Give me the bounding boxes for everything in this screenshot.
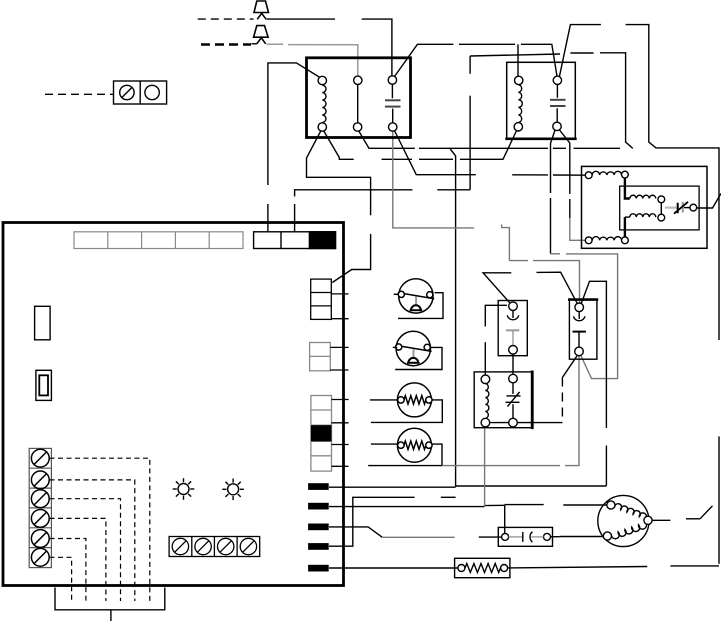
wire gray from spade S2 to relay C1 middle top (267, 44, 358, 76)
wire from spade S1 to relay C1 contact top (267, 19, 392, 76)
wire relay C1 coil-bottom to board connector stack1 (307, 131, 371, 283)
contactor C1 box (307, 58, 411, 138)
pressure switch PS2 (396, 331, 432, 365)
limit switch PS3 box (498, 301, 527, 356)
wire dashed from switch PS4 bottom (562, 356, 577, 423)
transformer T1 primary top winding (585, 171, 628, 178)
wire dashed to terminal block TB1 (45, 93, 114, 95)
wire relay R3 bottom out right (517, 422, 562, 424)
wire board strip cell2 riser and y190 rail (295, 190, 471, 232)
board connector stack J1 (3 cells) (311, 279, 349, 319)
limit switch PS4 box (568, 299, 598, 359)
run capacitor RC internals (502, 532, 551, 542)
start relay R3 contact with slash (506, 374, 521, 427)
wire bar3 to run capacitor (gray) (329, 527, 382, 537)
wire bar2 rail y506 to motor (329, 505, 607, 507)
wire stub heater H1 (370, 399, 397, 401)
wire heavy dashed to spade S2 (201, 43, 251, 46)
wire switch PS3 bottom to relay R3 contact-top (512, 354, 514, 374)
compressor motor M1 (598, 495, 652, 546)
contactor C1 coil (318, 76, 326, 131)
board screw terminal column (6) (29, 448, 51, 567)
wire relay C2 contact-bottom left branch long vertical (551, 130, 556, 254)
limit switch PS4 internals (573, 303, 586, 356)
wire transformer secondary out to right edge (696, 194, 721, 209)
wire vertical x470 (469, 56, 471, 190)
LED D2 (222, 479, 244, 501)
wire rail y272.7 switch PS3 top to switch PS4 top (483, 272, 577, 304)
control board outline (3, 223, 344, 586)
heater H1 (397, 383, 432, 417)
heater H2 (397, 428, 432, 462)
wire gray relay R3 bottom drop to rail y506 (484, 428, 486, 507)
wire stub to gray riser x509 (502, 225, 510, 261)
transformer T1 primary bottom winding (585, 237, 628, 244)
quick-connect spade terminal S1 (254, 1, 269, 19)
limit switch PS3 internals (506, 302, 519, 354)
wire gray y254 to x617.6 down to switch PS4 bottom (551, 254, 618, 379)
contactor C1 middle pole (353, 76, 362, 131)
wire gray relay C1 contact-bottom drop and y228 run (393, 131, 474, 228)
transformer T1 thermal cutout (665, 202, 697, 214)
LED D1 (173, 478, 195, 500)
start relay R3 bottom link (490, 422, 509, 424)
wire stub pressure switch PS2 (393, 346, 397, 348)
contactor C1 contact pole (385, 76, 401, 131)
board terminal strip right (3 cells, one black) (254, 232, 336, 249)
wire relay C2 contact-bottom right branch to transformer secondary (560, 130, 570, 218)
board terminal strip left (5 cells) (74, 232, 243, 249)
board screw terminal strip (4) (169, 537, 260, 557)
wire loop pressure switch PS1 (398, 293, 443, 319)
wire loop pressure switch PS2 (395, 347, 442, 369)
wire bar1 rail y487 to x606 (329, 486, 606, 487)
wire stub heater H2 (371, 443, 397, 445)
wire loop heater H2 (368, 444, 442, 466)
quick-connect spade terminal S2 (252, 26, 269, 44)
harness bracket below board (55, 588, 165, 621)
wire bar5 to crankcase heater (329, 567, 458, 569)
start relay R3 box (474, 371, 533, 430)
wire rail y24.6 relay C2 contact-top to right edge drop (560, 25, 720, 564)
dashed harness from screw terminals (50, 458, 150, 601)
start relay R3 coil (481, 375, 490, 427)
contactor C2 box (505, 62, 576, 139)
transformer T1 secondary winding 1 (625, 178, 665, 203)
wire switch PS3 top to relay R3 coil-top (485, 305, 507, 375)
wire switch PS4 top to vertical x606.4 down to y486 rail (581, 281, 606, 486)
wire gray heater H2 loop to switch PS4 (442, 465, 560, 467)
transformer T1 outer box (582, 166, 708, 248)
crankcase heater CCH internals (458, 564, 508, 573)
pressure switch PS1 (398, 279, 434, 313)
board connector stack J3 (5 cells, one black) (311, 396, 332, 472)
board fuse F1 (35, 306, 51, 340)
wire run capacitor right to motor bottom-left (551, 536, 560, 538)
terminal block TB1 (114, 81, 167, 104)
wire crankcase heater to right edge (508, 566, 719, 568)
contactor C2 contact pole (550, 76, 566, 131)
wire rail y148 from relay C1 mid-bottom across (359, 131, 621, 487)
wire relay C1 coil-top to board strip cell (268, 63, 321, 232)
wire gray switch PS4 bottom to heater H2 loop (565, 356, 579, 466)
wire stub pressure switch PS1 (394, 293, 399, 295)
wire loop heater H1 (371, 400, 442, 423)
crankcase heater CCH box (455, 558, 510, 577)
wire motor right lead and disconnect (652, 506, 712, 521)
board connector stack J2 (2 cells) (310, 343, 331, 371)
wire rail y159 relay C1 coil-bottom to relay C2 coil-bottom (324, 129, 518, 159)
board jumper JP1 (36, 370, 52, 400)
transformer T1 secondary winding 2 (625, 203, 665, 237)
wire drop to run capacitor left (504, 505, 506, 534)
wire L1 rail y44 relay C1 contact-top to relay C2 (395, 44, 558, 76)
transformer T1 inner box (620, 186, 699, 230)
board spade terminals (5 black bars) (308, 483, 329, 571)
wire gray rail y260.6 to pressure switch PS4 top (509, 261, 579, 304)
contactor C2 coil (514, 76, 523, 131)
wire rail y175 relay C1 contact-bottom to transformer primary (394, 131, 585, 176)
run capacitor RC box (498, 527, 552, 546)
wire bar4 riser to rail y497 (329, 497, 456, 546)
wire dashed to spade S1 (198, 18, 254, 20)
wire rail y54 to vertical x625.6 (470, 53, 633, 149)
